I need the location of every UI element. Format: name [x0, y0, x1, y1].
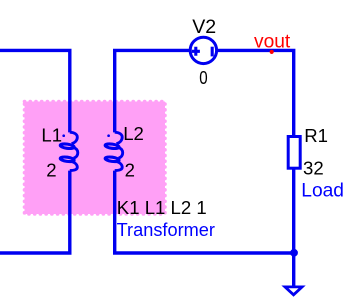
svg-text:32: 32 — [303, 158, 324, 179]
svg-text:2: 2 — [125, 159, 135, 180]
inductor L2 — [105, 132, 123, 170]
transformer K1 highlight box — [25, 102, 166, 215]
junction — [290, 249, 298, 257]
svg-text:0: 0 — [199, 67, 207, 88]
svg-text:L2: L2 — [123, 123, 144, 144]
node vout marker — [270, 50, 274, 54]
svg-text:2: 2 — [46, 160, 56, 181]
svg-text:K1 L1 L2 1: K1 L1 L2 1 — [117, 197, 207, 218]
wire R1 bottom to junction — [292, 168, 295, 253]
svg-text:R1: R1 — [304, 125, 328, 146]
wire L1 bottom to left edge — [0, 171, 70, 253]
resistor R1 — [288, 137, 300, 169]
svg-text:L1: L1 — [41, 125, 62, 146]
inductor L1 — [60, 132, 78, 170]
svg-text:Load: Load — [301, 181, 344, 202]
wire L2 bottom to junction — [115, 171, 294, 253]
ground — [285, 287, 302, 295]
wire L2 top to V2 — [115, 50, 191, 132]
svg-text:Transformer: Transformer — [117, 220, 215, 240]
wire top-left to L1 — [0, 50, 70, 132]
svg-text:vout: vout — [254, 32, 291, 53]
wire V2 to R1 top — [217, 50, 294, 137]
voltage source V2 — [190, 37, 216, 63]
wire junction to ground — [292, 253, 295, 286]
svg-text:V2: V2 — [192, 16, 216, 38]
